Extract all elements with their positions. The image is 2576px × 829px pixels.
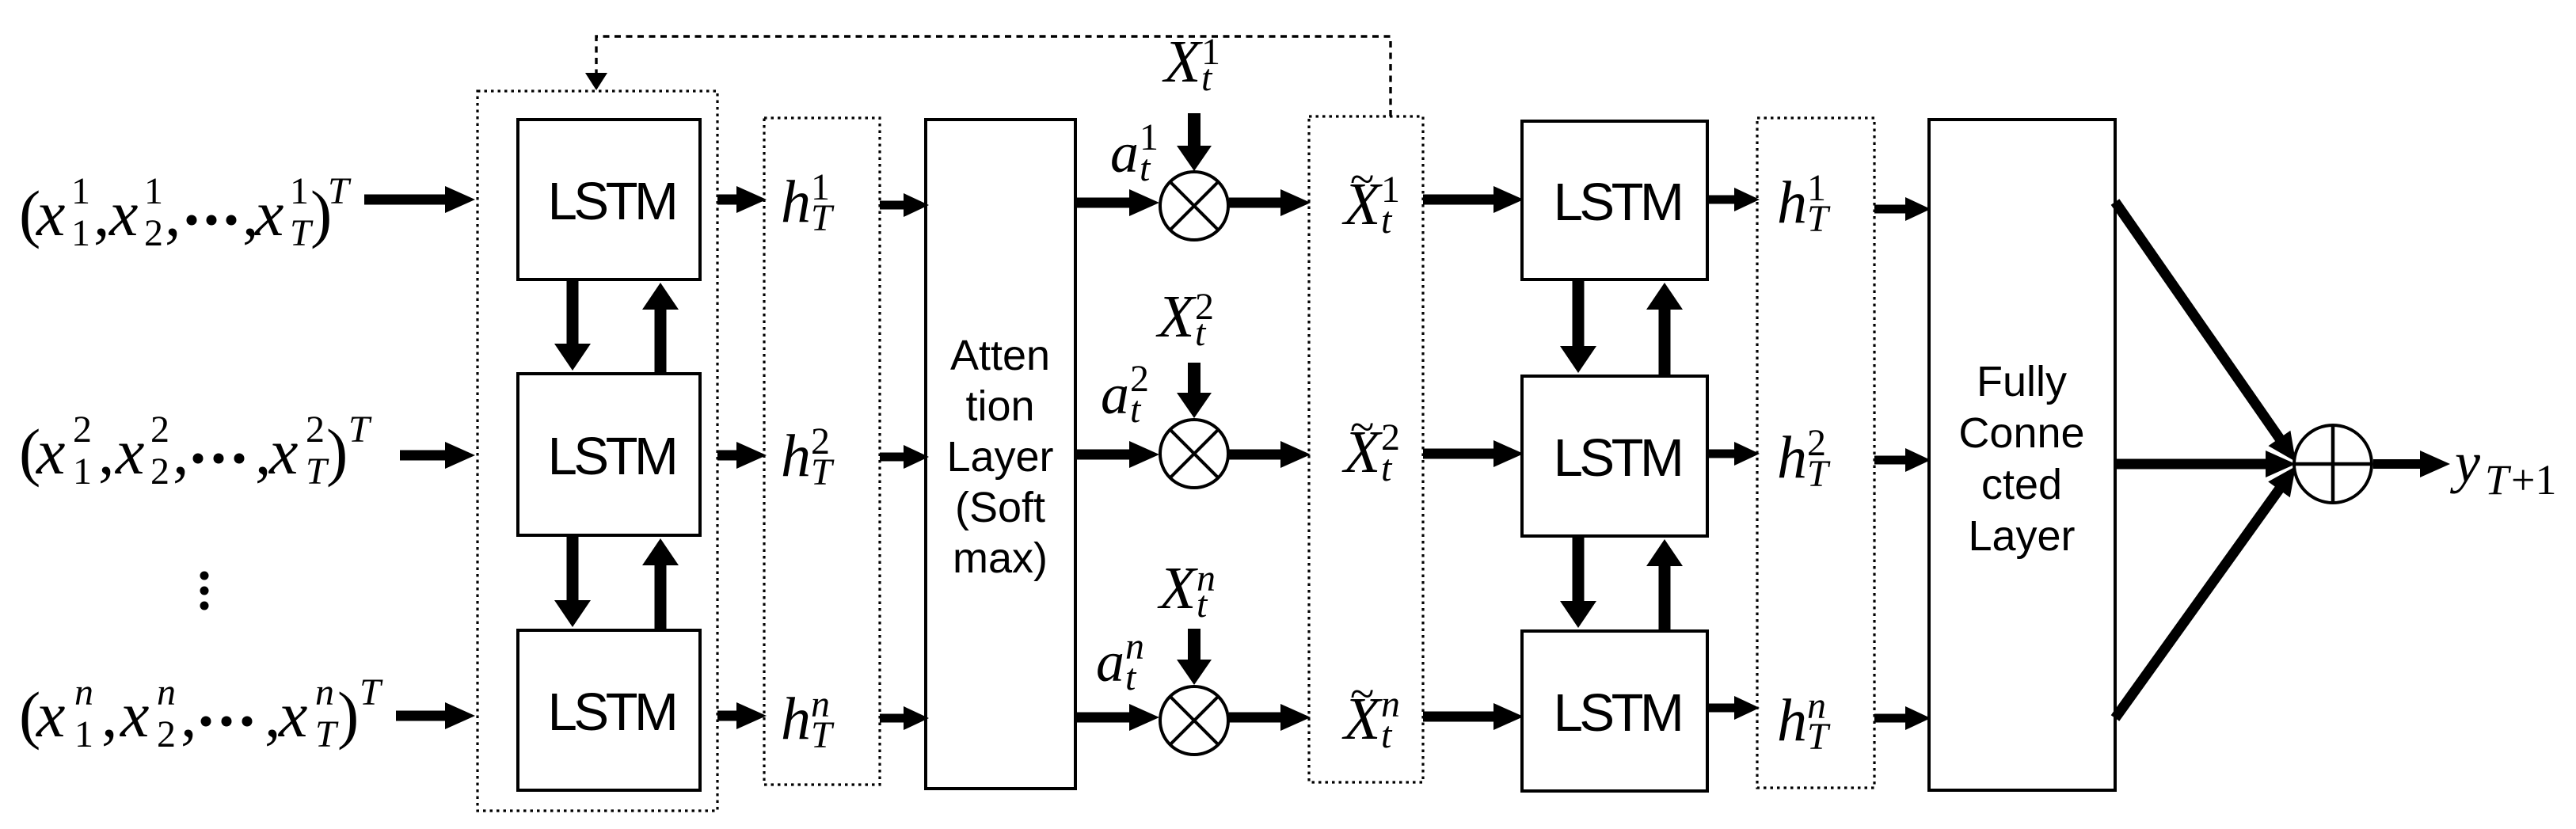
svg-text:1: 1 bbox=[73, 451, 92, 492]
svg-text:x: x bbox=[115, 416, 144, 488]
svg-text:x: x bbox=[36, 416, 65, 488]
svg-text:1: 1 bbox=[290, 170, 309, 212]
svg-text:T: T bbox=[328, 170, 352, 212]
svg-text:,: , bbox=[173, 416, 189, 488]
svg-text:+1: +1 bbox=[2511, 456, 2556, 504]
svg-text:n: n bbox=[74, 671, 93, 713]
svg-text:2: 2 bbox=[1807, 422, 1826, 464]
svg-text:,: , bbox=[181, 679, 197, 751]
svg-text:h: h bbox=[1777, 424, 1807, 491]
svg-text:h: h bbox=[781, 423, 811, 489]
svg-text:a: a bbox=[1096, 630, 1124, 694]
svg-text:1: 1 bbox=[71, 212, 90, 254]
svg-text:,: , bbox=[101, 679, 118, 751]
svg-text:1: 1 bbox=[74, 713, 93, 755]
svg-text:x: x bbox=[254, 177, 283, 249]
svg-text:x: x bbox=[120, 679, 149, 751]
svg-text:T: T bbox=[315, 713, 339, 755]
svg-text:n: n bbox=[1381, 683, 1400, 725]
svg-text:): ) bbox=[337, 679, 359, 751]
svg-text:LSTM: LSTM bbox=[548, 683, 675, 742]
svg-text:Fully: Fully bbox=[1977, 358, 2067, 405]
svg-text:LSTM: LSTM bbox=[548, 427, 675, 486]
svg-text:LSTM: LSTM bbox=[548, 172, 675, 231]
svg-text:Layer: Layer bbox=[1968, 512, 2075, 560]
svg-text:2: 2 bbox=[1130, 358, 1149, 400]
svg-text:,: , bbox=[98, 416, 115, 488]
svg-text:,: , bbox=[165, 177, 181, 249]
svg-text:1: 1 bbox=[1381, 169, 1400, 211]
svg-text:n: n bbox=[1807, 685, 1826, 727]
svg-text:X: X bbox=[1162, 29, 1203, 95]
svg-text:h: h bbox=[1777, 169, 1807, 236]
svg-text:LSTM: LSTM bbox=[1554, 683, 1681, 743]
svg-text:a: a bbox=[1110, 121, 1139, 184]
svg-text:2: 2 bbox=[150, 409, 169, 451]
svg-text:T: T bbox=[2485, 456, 2512, 504]
svg-text:max): max) bbox=[953, 534, 1048, 582]
svg-text:Atten: Atten bbox=[950, 332, 1050, 379]
svg-text:T: T bbox=[348, 409, 372, 451]
svg-text:~: ~ bbox=[1350, 403, 1374, 452]
svg-text:Conne: Conne bbox=[1958, 409, 2084, 457]
svg-text:x: x bbox=[36, 177, 65, 249]
svg-text:h: h bbox=[781, 169, 811, 235]
svg-text:h: h bbox=[1777, 687, 1807, 754]
svg-text:2: 2 bbox=[306, 409, 325, 451]
svg-text:h: h bbox=[781, 686, 811, 752]
svg-text:2: 2 bbox=[1381, 416, 1400, 458]
svg-text:a: a bbox=[1101, 363, 1129, 426]
svg-text:): ) bbox=[326, 416, 348, 488]
svg-text:~: ~ bbox=[1350, 155, 1374, 204]
svg-text:1: 1 bbox=[71, 170, 90, 212]
svg-text:n: n bbox=[1125, 626, 1144, 667]
svg-text:1: 1 bbox=[144, 170, 163, 212]
svg-text:2: 2 bbox=[1195, 286, 1214, 328]
svg-text:,: , bbox=[93, 177, 110, 249]
svg-text:1: 1 bbox=[1201, 31, 1220, 73]
svg-text:2: 2 bbox=[811, 420, 830, 462]
svg-text:cted: cted bbox=[1981, 461, 2062, 508]
svg-text:tion: tion bbox=[965, 382, 1034, 430]
svg-text:2: 2 bbox=[150, 451, 169, 492]
svg-text:x: x bbox=[278, 679, 307, 751]
svg-text:n: n bbox=[1197, 557, 1216, 599]
svg-text:x: x bbox=[36, 679, 65, 751]
svg-text:T: T bbox=[360, 671, 383, 713]
svg-text:LSTM: LSTM bbox=[1554, 173, 1681, 232]
svg-text:LSTM: LSTM bbox=[1554, 428, 1681, 488]
svg-text:x: x bbox=[268, 416, 298, 488]
svg-text:n: n bbox=[315, 671, 334, 713]
svg-text:1: 1 bbox=[1140, 116, 1159, 158]
svg-text:(Soft: (Soft bbox=[955, 484, 1045, 531]
svg-text:n: n bbox=[811, 683, 830, 725]
svg-text:2: 2 bbox=[73, 409, 92, 451]
svg-text:Layer: Layer bbox=[946, 433, 1053, 481]
svg-text:X: X bbox=[1155, 283, 1197, 350]
svg-text:X: X bbox=[1157, 555, 1198, 622]
svg-text:x: x bbox=[108, 177, 138, 249]
svg-text:2: 2 bbox=[157, 713, 176, 755]
svg-text:n: n bbox=[157, 671, 176, 713]
svg-text:1: 1 bbox=[811, 166, 830, 208]
svg-text:2: 2 bbox=[144, 212, 163, 254]
svg-text:~: ~ bbox=[1350, 670, 1374, 719]
svg-text:1: 1 bbox=[1807, 167, 1826, 209]
